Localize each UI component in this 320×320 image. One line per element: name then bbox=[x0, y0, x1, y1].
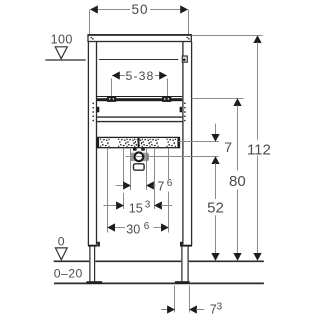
dimension 7 arrow bbox=[215, 124, 217, 135]
svg-text:7: 7 bbox=[224, 139, 232, 155]
dimension 50 arrowheads bbox=[90, 5, 188, 13]
extension line 30.6 right bbox=[168, 149, 170, 233]
dimension 112 bbox=[253, 35, 261, 43]
mounting bar bbox=[97, 96, 183, 98]
dimension 50 line bbox=[97, 9, 182, 11]
svg-text:30: 30 bbox=[126, 223, 140, 237]
drain ring bbox=[135, 152, 144, 161]
right rail bottom ledge bbox=[182, 245, 192, 247]
extension line 15.3 right bbox=[154, 149, 156, 209]
frame left rail bbox=[88, 42, 96, 246]
level line 100 bbox=[45, 59, 85, 61]
floor line upper bbox=[54, 260, 264, 262]
rail serration left bbox=[93, 103, 95, 122]
dimension 7.3 extension lines bbox=[175, 286, 190, 313]
rail serration right bbox=[184, 103, 186, 122]
drain center bar bbox=[138, 138, 140, 148]
drain plate bbox=[131, 153, 149, 161]
clamp tab left bbox=[97, 107, 99, 113]
svg-text:0: 0 bbox=[58, 235, 65, 249]
floor line lower bbox=[54, 282, 264, 284]
extension line 7.6 right bbox=[146, 149, 148, 190]
right leg bbox=[182, 246, 188, 281]
left leg bbox=[90, 246, 95, 281]
top bar screw left bbox=[91, 37, 94, 40]
extension line 7 top bbox=[179, 141, 219, 143]
drain centerline bbox=[126, 156, 219, 158]
frame right rail bbox=[183, 42, 192, 246]
dimension 7.3 arrows bbox=[161, 309, 168, 311]
dimension 7.6 bbox=[116, 185, 124, 187]
mounting bar bolt left bbox=[107, 96, 116, 102]
svg-text:6: 6 bbox=[167, 178, 173, 189]
extension line 80 bbox=[192, 98, 244, 100]
right leg knob bbox=[180, 242, 183, 247]
dimension 5-38 line bbox=[112, 75, 167, 77]
traverse line upper bbox=[97, 116, 183, 118]
clip on right rail bbox=[182, 56, 187, 62]
strip dots bbox=[100, 139, 176, 147]
level triangle 100 bbox=[55, 47, 67, 59]
clamp tab right bbox=[180, 107, 182, 113]
svg-text:15: 15 bbox=[129, 201, 143, 215]
perforated strip bbox=[97, 137, 180, 147]
svg-text:0–20: 0–20 bbox=[54, 266, 83, 280]
svg-text:3: 3 bbox=[145, 199, 151, 210]
extension line 7.6 left bbox=[130, 149, 132, 190]
svg-text:3: 3 bbox=[217, 301, 223, 312]
extension line top 112 bbox=[192, 35, 263, 37]
traverse line lower bbox=[97, 121, 183, 123]
svg-text:7: 7 bbox=[157, 179, 164, 193]
extension line 30.6 left bbox=[107, 149, 109, 233]
drain collar bbox=[133, 148, 137, 151]
left foot bbox=[86, 281, 102, 284]
top bar screw right bbox=[187, 37, 190, 40]
dimension 50 extension ticks bbox=[90, 10, 189, 35]
svg-text:100: 100 bbox=[51, 33, 73, 47]
svg-text:112: 112 bbox=[247, 141, 271, 158]
dimension 30.6 bbox=[114, 227, 162, 229]
drain outlet bbox=[134, 164, 145, 170]
dimension 52 bbox=[211, 156, 219, 164]
strip end cap right bbox=[177, 137, 179, 148]
svg-text:6: 6 bbox=[144, 221, 150, 232]
svg-text:52: 52 bbox=[207, 200, 224, 217]
mounting bar bolt right bbox=[162, 96, 171, 102]
dimension 15.3 bbox=[104, 205, 117, 207]
interior crossbar line bbox=[99, 59, 178, 61]
dimension 5-38 extension lines bbox=[112, 79, 168, 97]
svg-text:5-38: 5-38 bbox=[125, 69, 154, 83]
svg-text:50: 50 bbox=[131, 2, 148, 17]
dimension 5-38 arrowheads bbox=[112, 71, 167, 79]
left rail bottom ledge bbox=[88, 245, 97, 247]
left leg knob bbox=[97, 242, 100, 247]
right foot bbox=[175, 281, 190, 284]
dimension 80 bbox=[233, 98, 241, 106]
frame top bar bbox=[88, 35, 191, 42]
extension line 15.3 left bbox=[123, 149, 125, 209]
svg-text:80: 80 bbox=[229, 173, 246, 190]
strip end cap left bbox=[97, 137, 99, 148]
strip holes bbox=[102, 140, 174, 146]
level triangle 0 bbox=[55, 248, 67, 260]
